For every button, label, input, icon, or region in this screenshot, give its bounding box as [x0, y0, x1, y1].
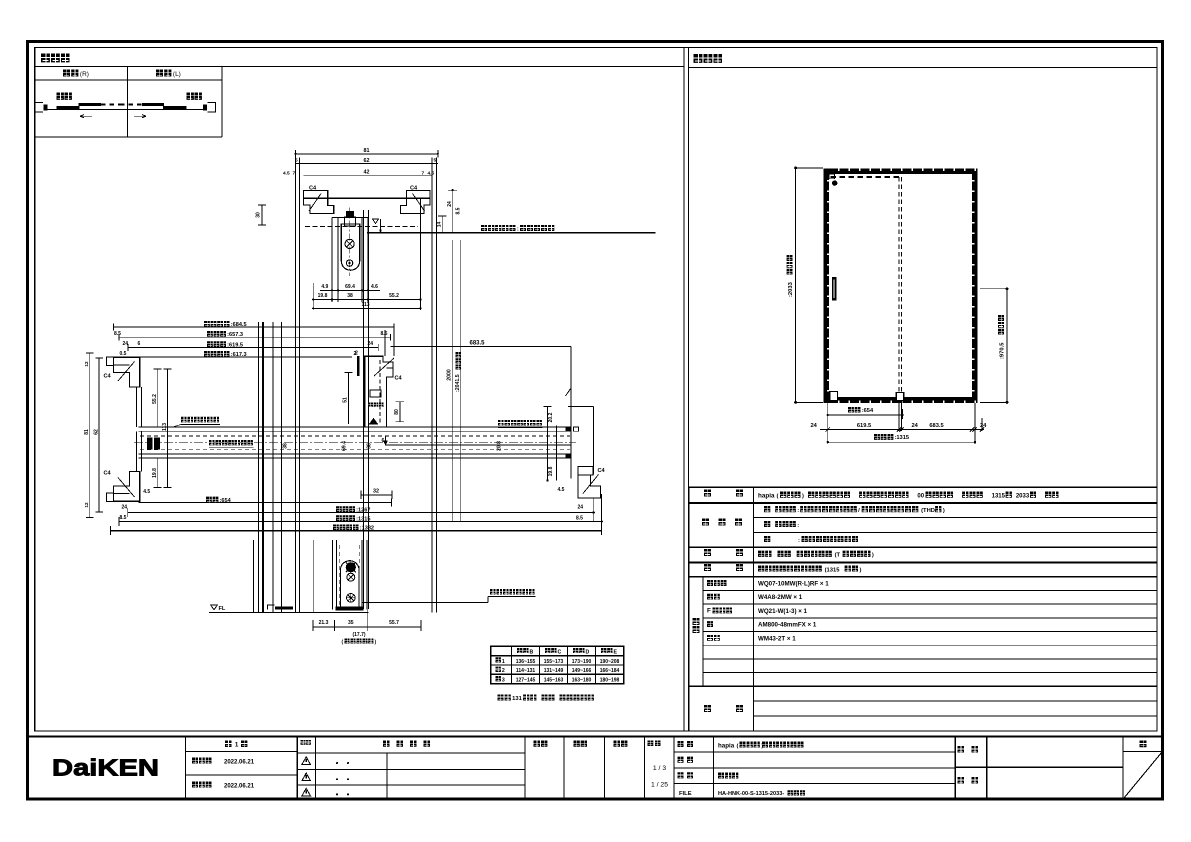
svg-text:62: 62: [364, 158, 370, 164]
svg-text:3: 3: [502, 678, 505, 684]
page col: [1123, 751, 1163, 753]
title underline: [35, 65, 684, 67]
svg-text:(THD: (THD: [921, 508, 935, 514]
flat rail label: [490, 589, 496, 595]
svg-text:35: 35: [348, 620, 354, 626]
floor threshold bar: [275, 607, 293, 610]
head right wall lines: [431, 158, 433, 613]
svg-text:62: 62: [94, 429, 100, 435]
svg-text:2: 2: [502, 668, 505, 674]
svg-text:F: F: [707, 608, 711, 615]
plan bottom dim 1315: [119, 521, 602, 523]
svg-text:1 / 3: 1 / 3: [653, 765, 666, 772]
title block top line: [28, 735, 1163, 737]
rail leader line: [367, 232, 656, 234]
svg-text:DaiKEN: DaiKEN: [52, 755, 159, 781]
svg-text:24: 24: [811, 423, 818, 429]
svg-text:38: 38: [347, 293, 353, 299]
svg-text:1315: 1315: [992, 494, 1006, 500]
plan dim frame inner 619.5: [128, 346, 378, 348]
spec row label shiage: [702, 519, 709, 526]
svg-text:114~131: 114~131: [516, 668, 536, 674]
scale col: [648, 740, 654, 746]
svg-text:683.5: 683.5: [929, 423, 943, 429]
svg-text:8.5: 8.5: [455, 207, 461, 214]
band bottom edges: [138, 453, 571, 455]
svg-text:155~173: 155~173: [544, 659, 564, 665]
svg-text:127~145: 127~145: [516, 678, 536, 684]
tolerance table rows: [496, 657, 501, 662]
svg-text:B: B: [530, 649, 534, 655]
spec content fuzoku: [758, 565, 764, 571]
plan bottom dim 1332: [111, 530, 602, 532]
svg-text:32: 32: [373, 488, 379, 494]
head bottom dim row2: [313, 299, 420, 301]
svg-text:38: 38: [283, 443, 289, 449]
wall small dim 30: [261, 205, 263, 225]
svg-text:2033: 2033: [1016, 494, 1030, 500]
svg-text:E: E: [614, 649, 618, 655]
inner border frame: [35, 48, 1157, 732]
svg-text::: :: [517, 227, 519, 233]
right jamb dims: [547, 407, 549, 481]
svg-text:1: 1: [502, 659, 505, 665]
svg-text::2033: :2033: [788, 281, 794, 297]
floor door leaf verticals: [331, 540, 333, 610]
flat rail leader: [362, 601, 488, 603]
svg-text:14: 14: [436, 222, 442, 228]
left jamb lower C4 block: [114, 471, 140, 501]
floor guide circle filled: [346, 563, 355, 572]
head bottom dim row1: [320, 289, 380, 291]
head dim line 42: [304, 174, 432, 176]
svg-text:81: 81: [84, 429, 90, 435]
spec content finish2: [764, 521, 770, 527]
floor section wall verticals: [313, 540, 315, 613]
plan dim 683.5 with corner: [391, 345, 571, 347]
post profile: [365, 356, 393, 427]
spec row label hinban: [693, 618, 700, 625]
svg-text:24: 24: [123, 341, 129, 347]
svg-text::970.5: :970.5: [1000, 342, 1006, 359]
vertical dim 2000: [452, 240, 454, 522]
svg-text:(T: (T: [835, 553, 841, 559]
spec table vertical dividers: [753, 487, 755, 731]
left jamb inner dim 113: [167, 369, 169, 488]
spec row label yoshiki: [704, 490, 711, 497]
svg-text:55.2: 55.2: [152, 394, 158, 404]
hanger channel verticals: [331, 218, 333, 303]
svg-text:8.5: 8.5: [576, 516, 583, 522]
post gap bar: [357, 356, 359, 376]
rail leader label: [481, 225, 487, 231]
svg-text:81: 81: [364, 148, 370, 154]
spec table bikou sublines: [754, 700, 1158, 702]
elevation bottom dim 654: [828, 414, 903, 416]
door leaf bottom block: [896, 393, 903, 401]
floor dim row: [313, 626, 421, 628]
hanger centerline: [349, 208, 351, 277]
svg-text::1267: :1267: [356, 507, 370, 513]
svg-text:69.4: 69.4: [342, 441, 348, 451]
left-sliding cell label: [156, 70, 163, 77]
spec row label fuzoku: [704, 564, 711, 571]
left panel title danmenzu: [41, 54, 50, 63]
FL line: [209, 612, 369, 614]
svg-text:149~166: 149~166: [572, 668, 592, 674]
plan dim wall opening 684.5: [114, 326, 394, 328]
svg-text::617.3: :617.3: [231, 352, 247, 358]
door handle: [832, 277, 837, 301]
svg-text:1 / 25: 1 / 25: [651, 782, 668, 789]
floor shoe: [335, 606, 363, 610]
svg-text::657.3: :657.3: [227, 332, 243, 338]
svg-text:19.8: 19.8: [152, 468, 158, 478]
svg-text:12: 12: [84, 502, 89, 508]
svg-text:C4: C4: [598, 468, 606, 474]
spec table finish sublines: [754, 517, 1158, 519]
door leaf dashed right edge: [898, 177, 900, 399]
svg-text:180~198: 180~198: [600, 678, 620, 684]
svg-text:4.5: 4.5: [283, 171, 290, 177]
plan bottom dim 1267: [128, 512, 594, 514]
svg-text:0.5: 0.5: [120, 351, 127, 357]
door floor guide: [830, 392, 838, 401]
spec table outer: [689, 486, 1157, 488]
FL mark: [211, 605, 218, 610]
rev history header: [383, 740, 390, 747]
svg-text:20.8: 20.8: [497, 441, 503, 451]
svg-text:136~155: 136~155: [516, 659, 536, 665]
svg-text:8.5: 8.5: [381, 331, 388, 337]
cap note label right: [498, 420, 504, 426]
svg-text:4.5: 4.5: [428, 171, 435, 177]
right jamb C4 block: [578, 467, 593, 476]
svg-text:C4: C4: [104, 374, 112, 380]
elevation bottom dim row2: [820, 429, 984, 431]
svg-text:24: 24: [447, 201, 453, 207]
post dim 32: [361, 494, 392, 496]
svg-text:30: 30: [256, 212, 262, 218]
svg-text:(L): (L): [173, 71, 181, 78]
svg-text:163~180: 163~180: [572, 678, 592, 684]
plan dim frame outer 657.3: [119, 336, 391, 338]
right title underline: [689, 67, 1157, 69]
svg-text::1315: :1315: [356, 516, 370, 522]
rev col header dai1han: [225, 741, 232, 748]
post dim 51: [348, 372, 350, 424]
title col lines: [184, 737, 186, 800]
head dim line 81: [296, 153, 438, 155]
right jamb face: [570, 407, 572, 479]
svg-text:8.5: 8.5: [120, 515, 127, 521]
door leaf dashed top: [831, 176, 902, 178]
post small label: [369, 403, 374, 408]
spec content finish3: [764, 536, 770, 542]
svg-text:C4: C4: [104, 471, 112, 477]
head dim line 62: [296, 163, 438, 165]
svg-text:12: 12: [84, 361, 89, 367]
svg-text:1: 1: [235, 742, 239, 749]
svg-text:19.8: 19.8: [548, 466, 554, 476]
elevation frame dash notches: [838, 169, 839, 171]
head bottom dim row3: [313, 307, 420, 309]
svg-text:C: C: [558, 649, 562, 655]
svg-text:): ): [860, 567, 862, 573]
svg-text:W4A8-2MW × 1: W4A8-2MW × 1: [758, 594, 803, 601]
svg-text:38: 38: [367, 443, 373, 449]
svg-text:24: 24: [912, 423, 919, 429]
svg-text:683.5: 683.5: [470, 340, 486, 346]
svg-text:FL: FL: [219, 606, 226, 612]
svg-text:145~163: 145~163: [544, 678, 564, 684]
spec content totte: [758, 551, 764, 557]
svg-text:WM43-2T × 1: WM43-2T × 1: [758, 635, 796, 642]
door leaf projection verticals: [363, 210, 365, 609]
elevation corner block: [829, 174, 835, 179]
spec table major lines: [689, 502, 1157, 504]
svg-text:6: 6: [138, 341, 141, 347]
head ext verticals: [312, 283, 314, 310]
right-sliding cell label: [63, 70, 70, 77]
svg-text:HA-HNK-00-S-1315-2033-: HA-HNK-00-S-1315-2033-: [718, 791, 784, 797]
tolerance table headers: [517, 648, 522, 653]
hanger roller housing: [341, 224, 359, 270]
right jamb pocket marks: [566, 427, 571, 431]
svg-text::654: :654: [862, 408, 874, 414]
hanger bracket: [346, 211, 354, 217]
left jamb outer dim 81: [89, 353, 91, 517]
head board bottom dashed face: [305, 225, 418, 227]
hanger roller big: [345, 239, 354, 248]
svg-text:42: 42: [364, 170, 370, 176]
svg-text:4.9: 4.9: [321, 284, 328, 290]
elevation bottom dim 1315: [828, 441, 975, 443]
right jamb outer vertical: [593, 407, 595, 475]
post top dims: [384, 330, 386, 356]
direction table grid: [35, 79, 222, 81]
panel divider: [683, 48, 685, 732]
svg-text:(1315: (1315: [825, 567, 841, 573]
right jamb lower verticals: [593, 498, 595, 522]
svg-text:21.3: 21.3: [319, 620, 329, 626]
hanger roller small: [346, 260, 352, 266]
spec content finish1: [764, 506, 770, 512]
kenmei label col: [955, 766, 1123, 768]
svg-text:190~208: 190~208: [600, 659, 620, 665]
post latch triangle: [370, 419, 378, 425]
plan dim effective 617.3: [130, 356, 352, 358]
right jamb top line: [568, 406, 593, 408]
svg-text:24: 24: [122, 505, 128, 511]
svg-text:): ): [872, 553, 874, 559]
name label col: [674, 751, 955, 753]
floor guide circle mid: [347, 573, 355, 581]
plan bottom dim 654: [138, 502, 391, 504]
tolerance table grid: [491, 646, 624, 683]
svg-text:): ): [943, 508, 945, 514]
spec row label bikou: [704, 705, 711, 712]
svg-text:80: 80: [394, 409, 400, 415]
svg-text:2000: 2000: [447, 369, 453, 381]
svg-text:AM800-48mmFX × 1: AM800-48mmFX × 1: [758, 622, 817, 629]
left jamb inner dim 55.2: [157, 369, 159, 427]
left jamb outer dim 62: [98, 358, 100, 512]
cap note label left: [209, 440, 215, 446]
svg-text:C4: C4: [309, 186, 317, 192]
floor guide arch: [340, 561, 359, 609]
left jamb face strip: [136, 387, 138, 427]
svg-text:20.2: 20.2: [548, 412, 554, 422]
svg-text:WQ07-10MW(R·L)RF × 1: WQ07-10MW(R·L)RF × 1: [758, 581, 829, 588]
svg-text:2022.06.21: 2022.06.21: [224, 783, 255, 789]
svg-text:51: 51: [343, 397, 349, 403]
band top edges: [138, 426, 571, 428]
svg-text::1315: :1315: [894, 435, 909, 441]
svg-text:7: 7: [422, 171, 425, 177]
svg-text:4.6: 4.6: [371, 284, 378, 290]
svg-text::: :: [797, 523, 799, 529]
wall cluster verticals: [253, 540, 255, 613]
right-sliding mini diagram: [57, 93, 64, 100]
band hanger block: [147, 437, 160, 449]
band centerline: [134, 442, 576, 444]
svg-text::684.5: :684.5: [231, 322, 247, 328]
svg-text:D: D: [586, 649, 590, 655]
svg-text:hapia: hapia: [718, 743, 735, 750]
approve cols headers: [534, 740, 541, 747]
svg-text:(R): (R): [80, 71, 89, 78]
svg-text:5: 5: [434, 158, 437, 164]
hanger note label: [181, 417, 187, 423]
svg-text:): ): [802, 494, 804, 500]
svg-text::2041.5: :2041.5: [455, 374, 461, 392]
svg-text:C4: C4: [395, 376, 403, 382]
svg-text:2022.06.21: 2022.06.21: [224, 759, 255, 765]
elevation frame band: [824, 169, 978, 175]
svg-text:19.8: 19.8: [318, 293, 328, 299]
svg-text::: :: [798, 538, 800, 544]
svg-text::: :: [797, 508, 799, 514]
spec row label totte: [704, 549, 711, 556]
svg-text::654: :654: [220, 498, 232, 504]
svg-text:hapia: hapia: [758, 493, 775, 500]
head frame top line: [304, 197, 431, 199]
svg-text:8.5: 8.5: [114, 331, 121, 337]
svg-text:4.5: 4.5: [143, 489, 150, 495]
svg-text:(17.7): (17.7): [352, 632, 365, 638]
svg-text:55.7: 55.7: [389, 620, 399, 626]
svg-text:131~149: 131~149: [544, 668, 564, 674]
head left wall lines: [295, 158, 297, 613]
svg-text:24: 24: [578, 505, 584, 511]
rev history date col: [386, 753, 388, 799]
svg-text:WQ21-W(1-3) × 1: WQ21-W(1-3) × 1: [758, 608, 808, 615]
post dim 80: [399, 402, 401, 422]
no col: [301, 740, 306, 745]
svg-text:(: (: [777, 494, 779, 500]
band dashed lines: [140, 435, 570, 437]
rev dates: [192, 758, 198, 764]
vertical dim 2041.5: [460, 240, 462, 522]
svg-text:55.2: 55.2: [389, 293, 399, 299]
left jamb upper C4 block: [114, 357, 140, 387]
head right jamb C4 block: [400, 191, 430, 214]
floor guide circle low: [347, 594, 356, 603]
svg-text:(: (: [737, 744, 739, 750]
page diagonal: [1123, 752, 1162, 799]
svg-text:4.5: 4.5: [558, 487, 565, 493]
svg-text:619.5: 619.5: [857, 423, 871, 429]
svg-text::1332: :1332: [360, 526, 374, 532]
elevation left dim 2033: [795, 168, 797, 403]
svg-text:00: 00: [917, 494, 924, 500]
right panel title shoumenzu: [694, 54, 703, 63]
head right mini dims: [452, 190, 454, 233]
svg-text:69.4: 69.4: [345, 284, 355, 290]
svg-text:166~184: 166~184: [600, 668, 620, 674]
door stopper dot: [832, 180, 837, 185]
svg-text:2: 2: [355, 350, 358, 356]
tolerance note: [498, 694, 504, 700]
svg-text:131: 131: [512, 696, 522, 702]
elevation right dim 970.5: [1006, 289, 1008, 403]
svg-text::619.5: :619.5: [227, 342, 243, 348]
rail level mark: [373, 219, 379, 224]
spec table hinban sublines: [703, 589, 1157, 591]
spec sub labels: [707, 580, 713, 586]
left-sliding mini diagram: [187, 93, 194, 100]
head left jamb C4 block: [304, 191, 334, 214]
svg-text:C4: C4: [410, 186, 418, 192]
svg-text:FILE: FILE: [679, 791, 692, 797]
svg-text:173~190: 173~190: [572, 659, 592, 665]
